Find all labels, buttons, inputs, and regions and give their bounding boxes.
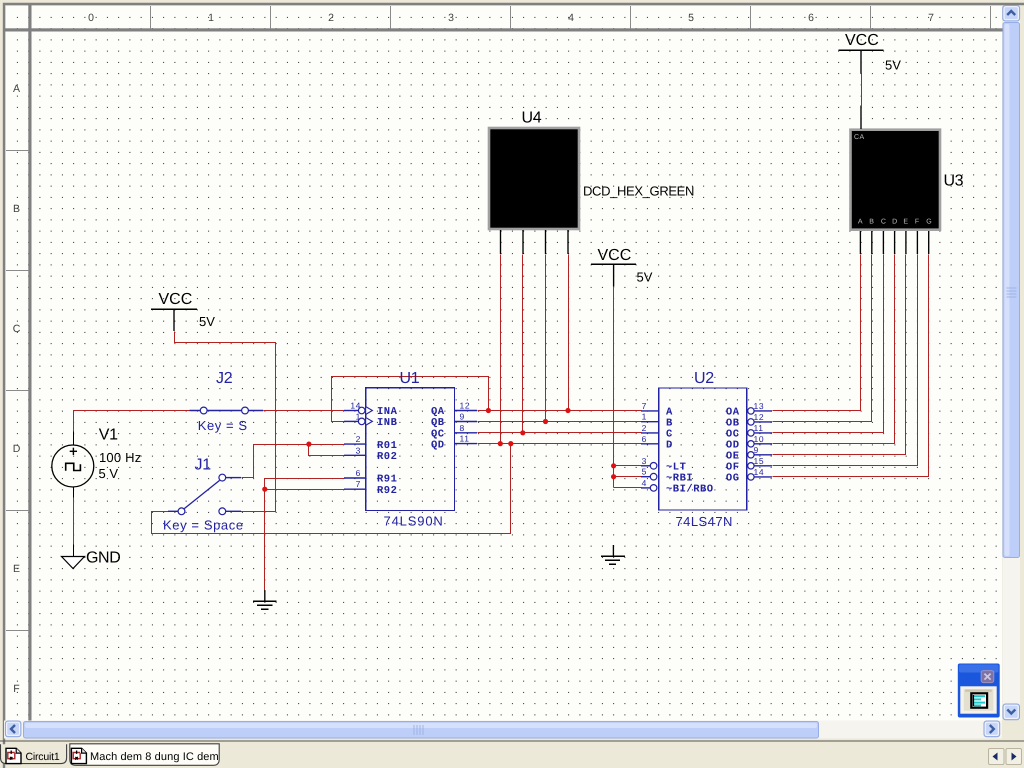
junction QA-INB	[486, 408, 491, 413]
svg-text:CA: CA	[854, 134, 865, 141]
svg-text:A: A	[13, 83, 20, 95]
svg-text:QD: QD	[431, 439, 445, 451]
svg-text:2: 2	[642, 423, 647, 433]
wire R91 to GND2	[265, 479, 345, 591]
svg-text:VCC: VCC	[598, 247, 632, 264]
wire U4 pin2 vertical	[522, 255, 524, 433]
svg-text:B: B	[869, 219, 874, 226]
svg-text:6: 6	[808, 12, 814, 24]
junction VCC-LT	[611, 463, 616, 468]
ruler tick 7	[990, 6, 992, 28]
junction QC-U4	[520, 430, 525, 435]
wire VCC3 to U3 CA	[861, 74, 863, 106]
svg-text:5V: 5V	[885, 58, 901, 73]
svg-text:R91: R91	[377, 474, 397, 486]
svg-text:74LS90N: 74LS90N	[384, 513, 444, 528]
ground GND2	[253, 590, 277, 609]
hscroll left button	[5, 721, 21, 737]
U1 pin names	[377, 406, 445, 497]
wire VCC2 to RBI	[614, 476, 642, 478]
ruler bottom bar	[4, 28, 1003, 31]
wire QD down to Key Space	[152, 444, 511, 534]
junction QA-U4	[565, 408, 570, 413]
svg-text:14: 14	[350, 401, 361, 411]
svg-text:B: B	[13, 203, 20, 215]
svg-text:INB: INB	[377, 417, 398, 429]
svg-text:9: 9	[460, 412, 465, 422]
svg-text:1: 1	[356, 411, 361, 421]
wire QB row to U2 B	[478, 421, 642, 423]
svg-text:Key = Space: Key = Space	[163, 518, 244, 533]
svg-text:Mach dem 8 dung IC dem: Mach dem 8 dung IC dem	[90, 751, 219, 763]
wire J2 to U1 INA	[264, 410, 345, 412]
svg-text:VCC: VCC	[159, 291, 193, 308]
junction VCC-RBI	[611, 474, 616, 479]
floating minimized window	[958, 664, 1000, 718]
svg-text:V1: V1	[99, 427, 118, 444]
svg-text:9: 9	[754, 445, 759, 455]
U2 pin names	[666, 407, 740, 496]
vscroll up button	[1003, 6, 1020, 22]
ruler tick 2	[390, 6, 392, 28]
svg-text:VCC: VCC	[845, 32, 879, 49]
svg-text:74LS47N: 74LS47N	[676, 514, 733, 529]
ruler htick 2	[6, 390, 28, 392]
wire U2 OB to U3	[773, 255, 872, 422]
ruler tick 3	[510, 6, 512, 28]
wire U2 OC to U3	[773, 255, 884, 433]
svg-text:8: 8	[460, 423, 465, 433]
svg-text:2: 2	[328, 12, 334, 24]
svg-text:A: A	[858, 219, 863, 226]
svg-text:D: D	[892, 219, 897, 226]
wire R01 branch to R02	[309, 445, 345, 456]
wire V1 top to J2	[74, 411, 190, 432]
svg-text:~RBI: ~RBI	[666, 472, 693, 484]
wire U2 OF to U3	[773, 255, 918, 466]
svg-text:0: 0	[88, 12, 94, 24]
hscroll thumb	[24, 722, 819, 739]
svg-text:2: 2	[356, 434, 361, 444]
horizontal scrollbar track	[4, 721, 1002, 739]
junction QD-U4	[498, 441, 503, 446]
svg-text:C: C	[13, 323, 21, 335]
svg-text:5: 5	[642, 467, 647, 477]
svg-text:3: 3	[356, 445, 361, 455]
wire QD row to U2 D	[478, 443, 642, 445]
U2 pin numbers	[642, 401, 764, 488]
svg-text:5: 5	[688, 12, 694, 24]
svg-text:DCD_HEX_GREEN: DCD_HEX_GREEN	[583, 184, 694, 199]
svg-text:5V: 5V	[199, 314, 215, 329]
svg-text:OG: OG	[726, 473, 740, 485]
svg-text:E: E	[903, 219, 908, 226]
ruler right bar	[28, 4, 31, 721]
svg-text:U2: U2	[694, 370, 714, 387]
svg-text:G: G	[926, 219, 931, 226]
switch J2	[190, 407, 264, 414]
op U1 74LS90N box	[344, 388, 477, 511]
svg-text:5V: 5V	[637, 270, 653, 285]
svg-text:7: 7	[356, 479, 361, 489]
svg-text:11: 11	[754, 423, 764, 433]
ruler tick 5	[750, 6, 752, 28]
svg-text:14: 14	[754, 467, 765, 477]
ruler htick 1	[6, 270, 28, 272]
svg-text:B: B	[666, 417, 673, 429]
power VCC2	[591, 264, 636, 286]
ruler htick 3	[6, 510, 28, 512]
wire J1 top to R01	[242, 445, 345, 478]
svg-text:6: 6	[356, 468, 361, 478]
wire V1 bottom to GND	[73, 498, 75, 545]
hscroll right button	[984, 721, 1000, 737]
vertical scrollbar track	[1003, 6, 1021, 720]
svg-text:J2: J2	[216, 370, 233, 387]
svg-text:12: 12	[460, 401, 471, 411]
svg-text:QB: QB	[431, 417, 445, 429]
svg-text:13: 13	[754, 401, 765, 411]
svg-text:10: 10	[754, 434, 765, 444]
svg-text:7: 7	[642, 401, 647, 411]
wire U2 OA to U3	[773, 255, 861, 411]
svg-text:J1: J1	[195, 456, 212, 473]
junction QB-U4	[543, 419, 548, 424]
tab Circuit1	[1, 744, 67, 763]
display U3 seven-seg	[851, 106, 941, 255]
wire VCC1 to J1 pin	[175, 332, 276, 512]
junction R01-R02	[306, 442, 311, 447]
wire U2 OE to U3	[773, 255, 906, 455]
wire VCC2 to LT	[614, 465, 642, 467]
junction QD-down	[508, 441, 513, 446]
ruler htick 0	[6, 150, 28, 152]
svg-text:Circuit1: Circuit1	[26, 751, 60, 763]
svg-text:E: E	[13, 563, 20, 575]
wire VCC2 to BI/RBO	[614, 487, 642, 489]
tab bar separator	[0, 740, 1024, 742]
svg-text:~BI/RBO: ~BI/RBO	[666, 484, 714, 496]
svg-text:R02: R02	[377, 451, 397, 463]
svg-text:1: 1	[208, 12, 214, 24]
wire U4 pin4 vertical	[568, 255, 570, 411]
svg-text:U4: U4	[522, 109, 542, 126]
svg-text:F: F	[915, 219, 919, 226]
svg-text:6: 6	[642, 434, 647, 444]
hscroll grip	[414, 725, 423, 735]
ruler tick 6	[870, 6, 872, 28]
svg-text:4: 4	[568, 12, 574, 24]
wire QA feedback to INB	[332, 377, 489, 422]
op U2 74LS47N box	[641, 388, 772, 510]
svg-text:D: D	[666, 440, 673, 452]
wire U2 OD to U3	[773, 255, 895, 444]
power VCC1	[151, 309, 197, 331]
svg-text:12: 12	[754, 412, 765, 422]
wire U4 pin3 vertical	[545, 255, 547, 422]
tab scroll right button	[1006, 749, 1022, 765]
ruler tick 4	[630, 6, 632, 28]
wire QC row to U2 C	[478, 432, 642, 434]
wire U4 pin1 vertical	[500, 255, 502, 444]
ruler htick 4	[6, 630, 28, 632]
svg-text:R01: R01	[377, 440, 397, 452]
svg-text:C: C	[881, 219, 886, 226]
wire R92	[265, 489, 345, 491]
wire U2 OG to U3	[773, 255, 929, 477]
svg-text:F: F	[13, 683, 19, 695]
vscroll thumb	[1003, 23, 1020, 558]
svg-text:Key = S: Key = S	[198, 418, 248, 433]
svg-text:GND: GND	[86, 550, 120, 567]
tab Mach dem 8 dung IC dem (active)	[70, 744, 219, 766]
svg-text:R92: R92	[377, 485, 397, 497]
svg-text:3: 3	[448, 12, 454, 24]
ground GND1	[62, 545, 85, 569]
ruler tick 1	[270, 6, 272, 28]
display U4 DCD_HEX	[489, 128, 579, 254]
source V1	[52, 432, 94, 498]
svg-text:7: 7	[928, 12, 934, 24]
vscroll down button	[1003, 704, 1020, 720]
svg-text:5 V: 5 V	[99, 466, 119, 481]
svg-text:1: 1	[642, 412, 647, 422]
tab scroll left button	[989, 749, 1005, 765]
U1 pin numbers	[350, 401, 470, 490]
svg-text:3: 3	[642, 456, 647, 466]
wire VCC2 down	[613, 287, 615, 488]
vscroll grip	[1007, 288, 1017, 297]
svg-text:11: 11	[460, 434, 470, 444]
wire QA row to U2 A	[478, 410, 642, 412]
svg-text:15: 15	[754, 456, 765, 466]
junction R91-R92	[262, 487, 267, 492]
switch J1	[168, 474, 241, 515]
svg-text:4: 4	[642, 478, 647, 488]
svg-text:U3: U3	[944, 173, 964, 190]
svg-text:D: D	[13, 443, 21, 455]
svg-text:U1: U1	[400, 370, 420, 387]
svg-text:100 Hz: 100 Hz	[99, 450, 141, 465]
ruler tick 0	[150, 6, 152, 28]
power VCC3	[839, 50, 884, 73]
ground GND3	[601, 545, 625, 564]
